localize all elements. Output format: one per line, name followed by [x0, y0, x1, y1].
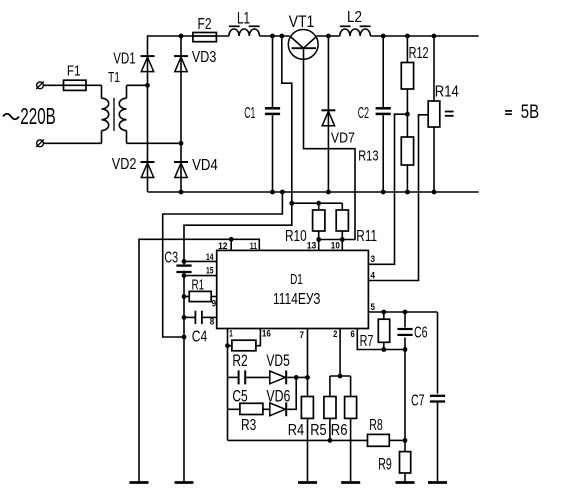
ground R4: [298, 481, 317, 484]
fuse F2: [193, 33, 217, 42]
label C4: [192, 329, 208, 346]
node C1 bottom: [270, 190, 275, 195]
IC D1 box: [217, 250, 369, 328]
wire bridge right rail: [180, 36, 182, 192]
label pin14: [206, 252, 214, 262]
diode VD2: [141, 162, 155, 178]
inductor L1: [229, 26, 260, 36]
resistor R10: [313, 203, 325, 250]
svg-text:R1: R1: [192, 277, 205, 294]
wire ground return: [163, 192, 283, 337]
label C1: [244, 105, 255, 122]
svg-text:R4: R4: [288, 422, 304, 439]
svg-text:L2: L2: [347, 9, 362, 26]
capacitor C3: [176, 261, 191, 275]
svg-text:VD5: VD5: [266, 352, 289, 370]
label C2: [358, 105, 369, 122]
label C6: [414, 324, 428, 341]
node R7 top: [381, 310, 386, 315]
label pin4: [371, 271, 376, 281]
capacitor C6: [397, 312, 412, 350]
terminal input bottom: [36, 140, 44, 148]
label R13: [358, 149, 378, 165]
label VD1: [113, 50, 136, 67]
wire bottom feedback: [228, 439, 368, 441]
wire VT1 base lead: [304, 48, 356, 239]
wire C6 to feedback: [404, 350, 406, 441]
wire R14 wiper to pin4: [368, 115, 428, 281]
node R12-R13 junction: [405, 112, 410, 117]
label pin11: [250, 241, 257, 251]
resistor R8: [368, 434, 406, 446]
svg-text:4: 4: [371, 271, 376, 281]
node C2 top: [381, 34, 386, 39]
label R10: [285, 228, 307, 245]
wire junction to pin3: [368, 114, 407, 264]
wire pins 11-12 ground: [139, 239, 259, 482]
node VD5-VD6 join: [294, 375, 299, 380]
node pin1 junction: [225, 343, 230, 348]
label R11: [356, 228, 377, 245]
svg-text:1114ЕУЗ: 1114ЕУЗ: [273, 291, 321, 308]
pin 15 wire: [184, 275, 217, 277]
node C6 top: [403, 310, 408, 315]
diode VD4: [174, 162, 188, 178]
terminal input top: [36, 82, 44, 90]
label R4: [288, 422, 304, 439]
node VD7 bottom: [326, 190, 331, 195]
wire input top: [43, 84, 63, 86]
ground IC bus: [175, 481, 194, 484]
svg-text:T1: T1: [108, 69, 120, 86]
label C5: [232, 388, 247, 406]
svg-text:R3: R3: [241, 417, 256, 434]
svg-text:10: 10: [331, 241, 340, 251]
svg-text:D1: D1: [290, 271, 303, 288]
label F2: [198, 16, 212, 33]
label pin7: [300, 330, 305, 340]
svg-text:C2: C2: [358, 105, 369, 122]
svg-text:VD3: VD3: [192, 49, 216, 66]
label VT1: [289, 13, 315, 31]
svg-text:R7: R7: [360, 333, 374, 350]
node R12 top: [405, 34, 410, 39]
node aux junction: [289, 201, 294, 206]
diode VD3: [174, 56, 188, 72]
svg-text:F2: F2: [198, 16, 212, 33]
svg-text:R6: R6: [331, 422, 348, 439]
wire top rail left: [148, 35, 230, 37]
label VD7: [331, 131, 355, 147]
pin 7 line: [307, 329, 309, 397]
diode VD6: [270, 402, 286, 416]
resistor R9: [400, 440, 411, 482]
svg-text:5: 5: [371, 302, 376, 312]
capacitor C7: [430, 396, 445, 483]
node bridge bottom: [179, 190, 184, 195]
pin 2 stub: [339, 329, 341, 377]
svg-text:R14: R14: [435, 84, 459, 101]
svg-text:1: 1: [229, 328, 233, 338]
svg-text:VD4: VD4: [192, 157, 218, 174]
node R14 bottom: [432, 190, 437, 195]
node secondary-left rail: [145, 83, 150, 88]
pin 14 wire: [184, 260, 217, 262]
pin 12: [229, 237, 234, 250]
svg-text:R2: R2: [232, 352, 247, 370]
node pin13: [316, 237, 321, 242]
svg-text:6: 6: [351, 329, 355, 339]
pin 5 wire: [368, 311, 437, 313]
label R1: [192, 277, 205, 294]
label VD3: [192, 49, 216, 66]
wire bus C4-ground: [183, 317, 185, 482]
wire bus R1-C4: [183, 297, 185, 318]
svg-text:2: 2: [333, 329, 337, 339]
node bridge top: [179, 34, 184, 39]
resistor R12: [401, 36, 413, 114]
label pin13: [307, 241, 317, 251]
label D1: [290, 271, 303, 288]
resistor R4: [301, 397, 313, 483]
wire VD6 riser: [287, 377, 296, 409]
node VD7 top: [326, 34, 331, 39]
svg-text:VT1: VT1: [289, 13, 315, 31]
pin 1 stub: [227, 329, 229, 346]
svg-text:F1: F1: [67, 62, 81, 79]
wire aux feed: [282, 36, 292, 203]
svg-text:13: 13: [307, 241, 317, 251]
svg-text:9: 9: [212, 298, 217, 308]
resistor R2: [228, 329, 261, 351]
wire secondary bottom to bridge: [127, 142, 182, 144]
label pin5: [371, 302, 376, 312]
node R5 bottom: [328, 438, 333, 443]
label VD2: [112, 156, 137, 173]
label pin16: [262, 328, 271, 338]
inductor L2: [340, 26, 371, 36]
node aux top: [279, 34, 284, 39]
svg-text:VD7: VD7: [331, 131, 355, 147]
fuse F1: [64, 80, 87, 90]
label pin8: [210, 317, 215, 327]
transformer T1 primary: [102, 85, 109, 143]
label C7: [411, 392, 425, 409]
svg-text:R9: R9: [378, 455, 392, 473]
resistor R3: [228, 403, 271, 414]
diode VD5: [270, 371, 286, 385]
svg-text:8: 8: [210, 317, 215, 327]
wire VD5 out: [287, 376, 307, 378]
wire bus 15-R1: [183, 276, 185, 297]
svg-text:R5: R5: [310, 422, 326, 439]
label pin15: [206, 265, 214, 275]
node R14 top: [432, 34, 437, 39]
pin 6 wire: [357, 329, 405, 350]
node pin10: [340, 237, 345, 242]
svg-text:7: 7: [300, 330, 305, 340]
label C3: [164, 249, 178, 266]
node C1 top: [270, 34, 275, 39]
node pin15 bus: [182, 273, 187, 278]
capacitor C5: [228, 370, 270, 384]
wire pin1 bus: [227, 346, 229, 441]
label R6: [331, 422, 348, 439]
label pin9: [212, 298, 217, 308]
svg-text:VD1: VD1: [113, 50, 136, 67]
resistor R6: [345, 376, 357, 483]
svg-text:C1: C1: [244, 105, 255, 122]
label VD4: [192, 157, 218, 174]
wire secondary top to bridge: [127, 84, 148, 86]
svg-text:220В: 220В: [20, 103, 56, 129]
label VD6: [266, 387, 290, 405]
label R9: [378, 455, 392, 473]
wire pin5 corner: [437, 312, 439, 394]
svg-text:5В: 5В: [521, 102, 539, 123]
label ~220V: [3, 103, 56, 129]
svg-text:11: 11: [250, 241, 257, 251]
svg-text:R11: R11: [356, 228, 377, 245]
node ground return bus: [182, 335, 187, 340]
svg-text:3: 3: [371, 254, 376, 264]
ground C7: [428, 481, 447, 484]
label F1: [67, 62, 81, 79]
label output =5V: [505, 102, 539, 123]
svg-text:VD6: VD6: [266, 387, 290, 405]
wire aux to IC bus: [184, 203, 292, 261]
label R2: [232, 352, 247, 370]
node R8-R9 junction: [403, 438, 408, 443]
svg-text:C3: C3: [164, 249, 178, 266]
label R7: [360, 333, 374, 350]
node pin14 bus: [182, 259, 187, 264]
wire drive bus: [292, 202, 343, 204]
node secondary-right rail: [179, 141, 184, 146]
label pin2: [333, 329, 337, 339]
svg-text:16: 16: [262, 328, 271, 338]
ground R9: [396, 481, 415, 484]
wire input bottom: [43, 142, 101, 144]
resistor R1: [184, 291, 217, 301]
label R8: [369, 417, 383, 434]
wire F1 to transformer: [86, 84, 102, 86]
label R3: [241, 417, 256, 434]
svg-text:12: 12: [218, 241, 227, 251]
svg-text:L1: L1: [237, 9, 250, 28]
node R10 top: [316, 201, 321, 206]
resistor R14: [428, 36, 440, 192]
resistor R13: [401, 114, 413, 192]
node C4 bus: [182, 315, 187, 320]
label pin1: [229, 328, 233, 338]
label pin10: [331, 241, 340, 251]
wire bridge left rail: [147, 35, 149, 192]
trimmer mark R14: [445, 112, 454, 116]
diode VD7 wire: [327, 36, 329, 192]
capacitor C4: [184, 311, 217, 324]
svg-text:R12: R12: [409, 45, 429, 62]
svg-text:R10: R10: [285, 228, 307, 245]
label L2: [347, 9, 362, 26]
label T1: [108, 69, 120, 86]
resistor R5: [324, 376, 336, 440]
node pin7 row2: [305, 375, 310, 380]
transformer T1 secondary: [119, 85, 126, 143]
label L1: [237, 9, 250, 28]
resistor R7: [378, 312, 389, 350]
wire L1 to VT1: [260, 35, 290, 37]
label R14: [435, 84, 459, 101]
label R12: [409, 45, 429, 62]
diode VD1: [141, 56, 155, 72]
diode VD7: [321, 110, 335, 126]
transformer T1 core: [113, 98, 115, 131]
svg-text:R8: R8: [369, 417, 383, 434]
resistor R11: [336, 203, 348, 250]
wire top rail right: [370, 35, 478, 37]
label pin6: [351, 329, 355, 339]
svg-text:14: 14: [206, 252, 214, 262]
ground pins11-12: [130, 481, 149, 484]
node C2 bottom: [381, 190, 386, 195]
wire R10-R11 bottoms: [319, 239, 343, 241]
node R7 bottom: [381, 347, 386, 352]
capacitor C1: [265, 36, 280, 192]
label VD5: [266, 352, 289, 370]
wire VT1 to L2: [316, 35, 339, 37]
label pin12: [218, 241, 227, 251]
node pin2 split: [338, 374, 343, 379]
wire bottom rail: [148, 191, 479, 193]
label pin3: [371, 254, 376, 264]
node R13 bottom: [405, 190, 410, 195]
svg-text:15: 15: [206, 265, 214, 275]
transistor VT1: [288, 30, 318, 60]
label 1114EU3: [273, 291, 321, 308]
svg-text:C7: C7: [411, 392, 425, 409]
svg-text:C6: C6: [414, 324, 428, 341]
svg-text:C4: C4: [192, 329, 208, 346]
node ground return: [280, 190, 285, 195]
node C6 bottom: [403, 347, 408, 352]
capacitor C2: [376, 36, 391, 192]
label R5: [310, 422, 326, 439]
svg-text:R13: R13: [358, 149, 378, 165]
svg-text:VD2: VD2: [112, 156, 137, 173]
node R1 bus: [182, 294, 187, 299]
wire R5-R6 jog: [330, 375, 351, 377]
ground R6: [341, 481, 360, 484]
